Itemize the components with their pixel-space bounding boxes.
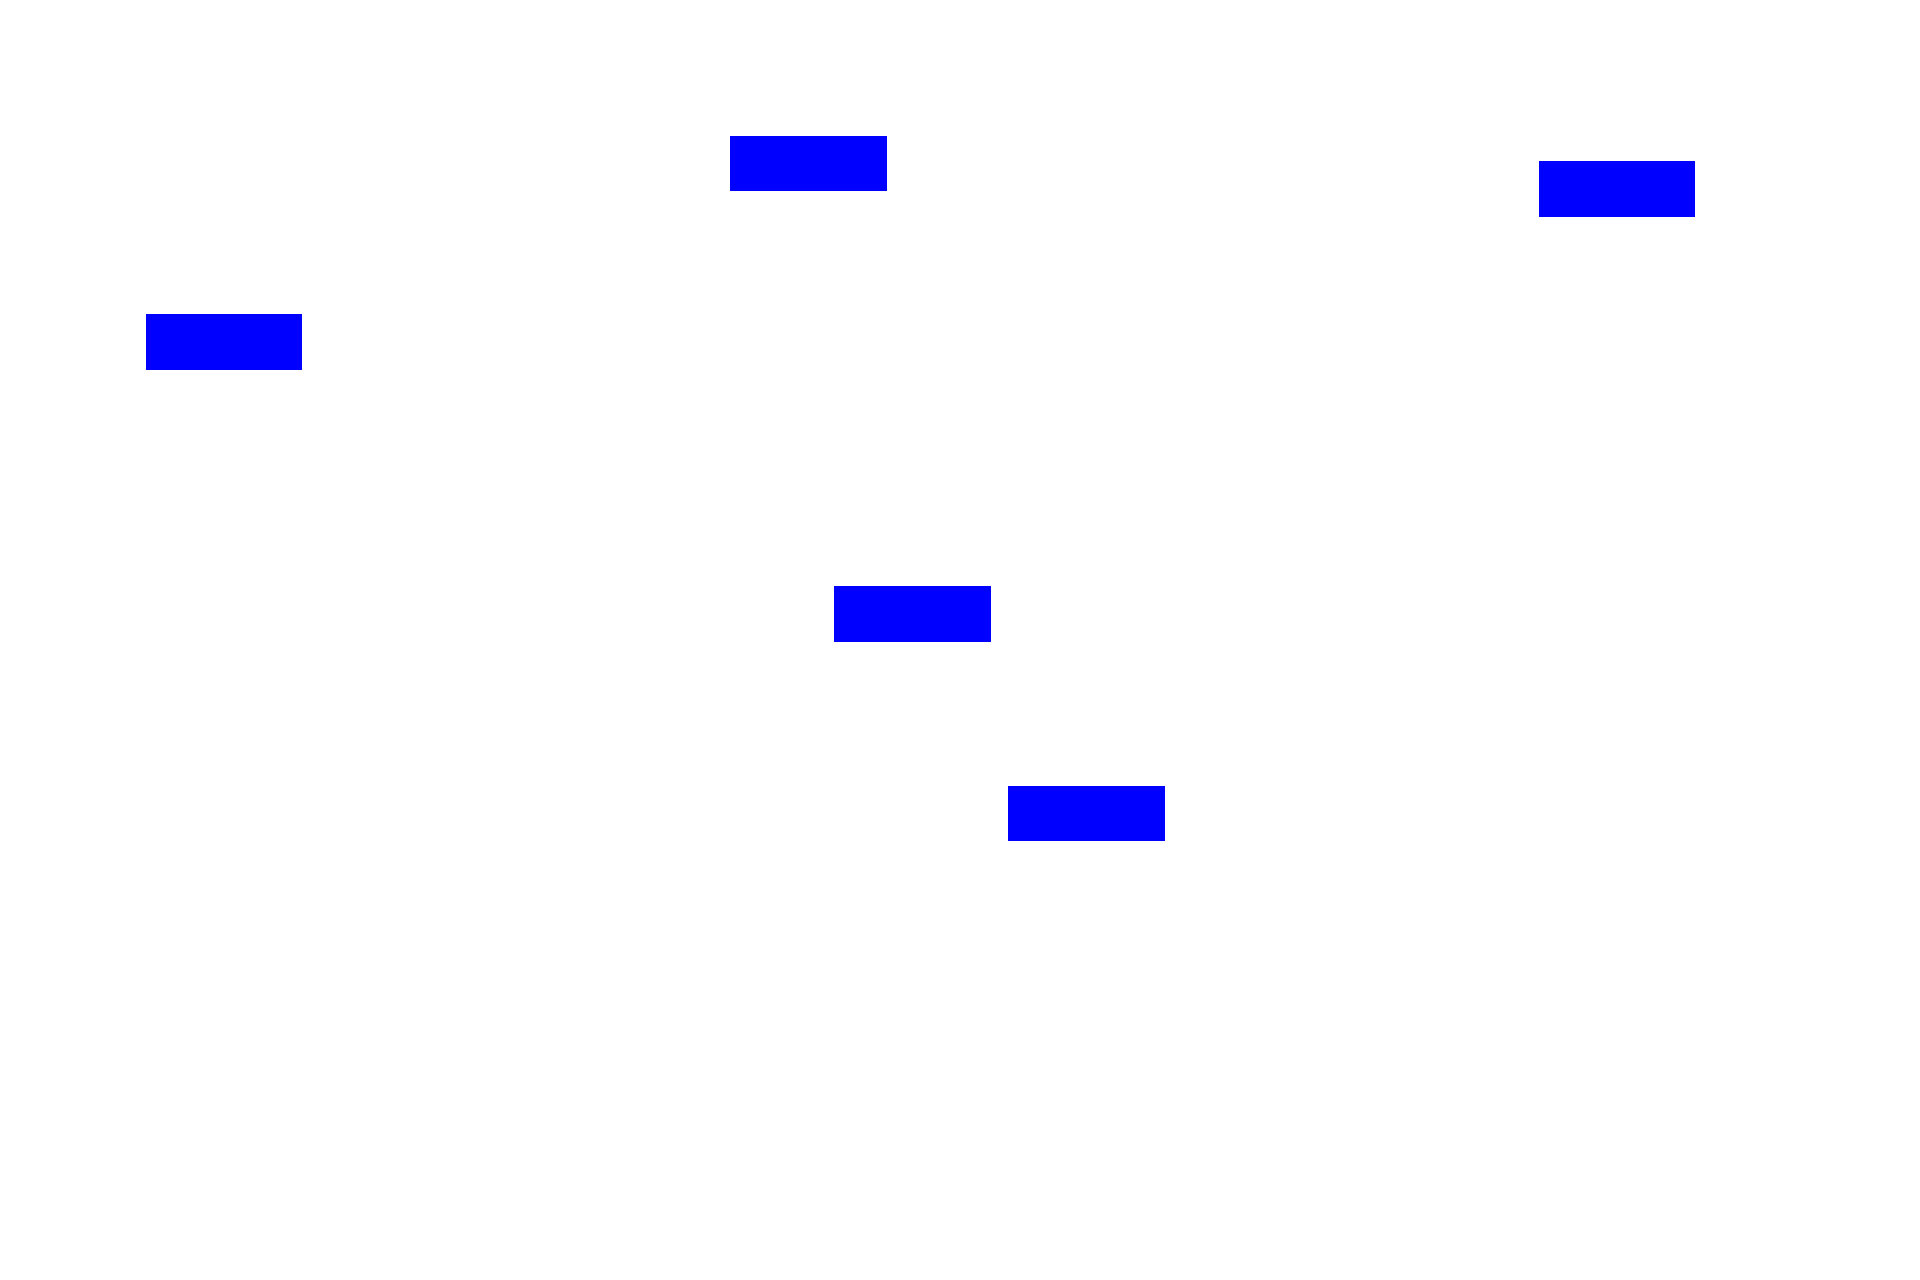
blue rectangle 4 (center)	[834, 586, 991, 642]
blue rectangle 5 (lower center)	[1008, 786, 1165, 841]
blue rectangle 2 (top right)	[1539, 161, 1695, 217]
blue rectangle 3 (left)	[146, 314, 302, 370]
blue rectangle 1 (top middle)	[730, 136, 887, 191]
